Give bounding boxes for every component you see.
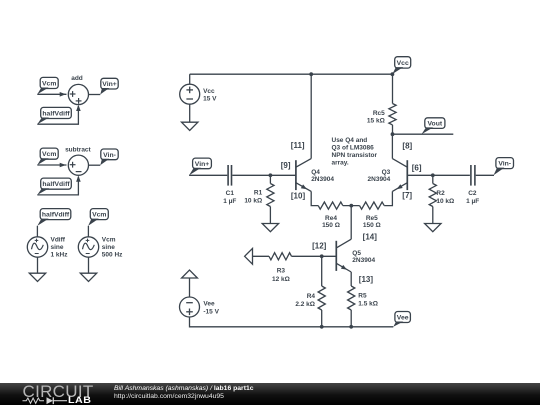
svg-text:[10]: [10] [291, 191, 306, 200]
svg-text:-15 V: -15 V [203, 308, 219, 315]
voltage source Vcc 15 V [180, 84, 217, 104]
svg-text:R1: R1 [254, 190, 263, 197]
svg-text:subtract: subtract [65, 147, 91, 154]
credit line 2 [114, 393, 224, 400]
svg-text:Vin+: Vin+ [102, 81, 116, 88]
svg-text:C1: C1 [226, 190, 235, 197]
svg-text:2N3904: 2N3904 [352, 257, 375, 264]
wire Re4 to junction [343, 205, 360, 207]
capacitor C2 1 uF [466, 165, 479, 205]
node flag halfVdiff (Vdiff source) [37, 209, 70, 226]
wire R3 to Q5 base [292, 255, 337, 257]
node flag halfVdiff (add input) [37, 107, 71, 124]
svg-text:halfVdiff: halfVdiff [42, 181, 70, 188]
node label 12 [312, 242, 327, 251]
wire halfVdiff to subtractor [37, 177, 78, 195]
svg-text:Vout: Vout [428, 121, 443, 128]
svg-text:Vcm: Vcm [92, 212, 106, 219]
wire flag to Vcm source [87, 226, 89, 237]
junction Rc5 / Vout / Q3 collector [391, 132, 395, 136]
ground below Vcm source [80, 273, 96, 281]
svg-text:10 kΩ: 10 kΩ [436, 198, 454, 205]
ground left of R3 [245, 248, 253, 264]
svg-text:R4: R4 [307, 293, 316, 300]
node label 8 [402, 141, 412, 150]
node flag Vout [422, 118, 445, 134]
svg-text:Re5: Re5 [366, 215, 378, 222]
arrowhead into subtractor [60, 163, 66, 168]
node label 9 [281, 161, 291, 170]
arrowhead up into subtractor [76, 176, 81, 182]
node flag halfVdiff (subtract input) [37, 178, 71, 195]
svg-text:Use Q4 and: Use Q4 and [332, 137, 368, 144]
svg-text:15 V: 15 V [203, 95, 217, 102]
svg-text:Vcc: Vcc [203, 88, 215, 95]
svg-text:[11]: [11] [291, 141, 305, 150]
wire ground to R3 [253, 255, 270, 257]
svg-text:Vee: Vee [397, 314, 409, 321]
wire Q4 collector to rail [310, 74, 312, 158]
node label 13 [359, 275, 374, 284]
svg-text:1 µF: 1 µF [466, 198, 479, 205]
wire Vcm to adder [37, 93, 66, 95]
arrowhead up into adder [76, 105, 81, 111]
node label 10 [291, 191, 306, 200]
ground above Vee source [182, 270, 198, 278]
wire Vcm source to ground [88, 257, 90, 273]
resistor R1 10 kOhm [244, 175, 274, 223]
svg-text:1.5 kΩ: 1.5 kΩ [358, 301, 378, 308]
source Vcm sine 500 Hz [78, 236, 123, 258]
wire Q5 emitter to R5 [350, 272, 352, 286]
svg-text:sine: sine [102, 244, 115, 251]
transistor Q4 2N3904 [296, 159, 334, 192]
node flag Vin- (input) [494, 158, 514, 176]
node label 14 [363, 233, 378, 242]
wire Vcm to subtractor [37, 164, 66, 166]
svg-text:Vdiff: Vdiff [51, 236, 66, 243]
resistor Re4 150 Ohm [318, 202, 343, 229]
voltage source Vee -15 V [180, 297, 220, 317]
wire subtractor to Vin- [89, 164, 101, 166]
note text [332, 137, 378, 167]
wire halfVdiff to adder [37, 106, 78, 124]
junction base / R2 [431, 173, 435, 177]
svg-text:[9]: [9] [281, 161, 291, 170]
resistor Rc5 15 kOhm [367, 74, 396, 134]
footer bar [0, 383, 540, 405]
node label 7 [402, 191, 412, 200]
svg-text:2N3904: 2N3904 [311, 176, 334, 183]
svg-text:2.2 kΩ: 2.2 kΩ [295, 301, 315, 308]
wire Vdiff source to ground [37, 257, 39, 273]
svg-text:halfVdiff: halfVdiff [42, 110, 70, 117]
svg-text:Vcc: Vcc [397, 60, 409, 67]
wire node 14 to Q5 collector [350, 206, 352, 240]
svg-text:Rc5: Rc5 [373, 110, 385, 117]
svg-text:R3: R3 [277, 267, 286, 274]
wire Vout [393, 133, 454, 135]
svg-text:[13]: [13] [359, 275, 374, 284]
wire Vcc source to ground [189, 104, 191, 122]
svg-text:500 Hz: 500 Hz [102, 252, 123, 259]
wire Vee source to rail [190, 317, 394, 327]
svg-text:Vin-: Vin- [498, 161, 511, 168]
svg-text:10 kΩ: 10 kΩ [244, 197, 262, 204]
wire flag to Vdiff source [36, 226, 38, 237]
resistor R2 10 kOhm [429, 175, 454, 223]
CircuitLab logo text CIRCUIT [23, 382, 94, 402]
wire Re5 to Q3 emitter [384, 191, 392, 205]
resistor R5 1.5 kOhm [348, 286, 378, 327]
svg-text:150 Ω: 150 Ω [363, 222, 381, 229]
wire C2 to Vin- [476, 174, 494, 176]
junction Vcc rail / flag [391, 72, 395, 76]
node flag Vin+ (add output) [100, 78, 118, 94]
svg-text:R2: R2 [436, 190, 445, 197]
svg-text:[6]: [6] [412, 163, 422, 172]
junction rail / R4 [320, 325, 324, 329]
capacitor C1 1 uF [223, 165, 236, 205]
svg-text:[7]: [7] [402, 191, 412, 200]
svg-text:Vcm: Vcm [42, 80, 56, 87]
summing block subtract [65, 147, 91, 176]
svg-text:[14]: [14] [363, 233, 378, 242]
credit line 1 [114, 385, 254, 392]
resistor Re5 150 Ohm [360, 202, 385, 229]
node flag Vin- (subtract output) [100, 149, 118, 165]
node flag Vin+ (input) [189, 158, 211, 175]
junction base / R1 [269, 173, 273, 177]
wire Q3 collector [391, 134, 393, 158]
wire Vcc source to rail [189, 74, 191, 84]
svg-text:Q3 of LM3086: Q3 of LM3086 [332, 145, 375, 152]
ground below Vdiff [29, 273, 45, 281]
junction R3 / R4 / base [320, 254, 324, 258]
svg-text:Vin+: Vin+ [195, 161, 209, 168]
svg-text:Vin-: Vin- [103, 152, 116, 159]
transistor Q3 2N3904 [368, 159, 408, 192]
svg-text:Vee: Vee [203, 301, 215, 308]
wire Vin+ to C1 [189, 174, 227, 176]
ground below Vcc source [182, 122, 198, 130]
node flag Vcc [392, 57, 410, 74]
svg-text:halfVdiff: halfVdiff [42, 212, 70, 219]
svg-text:Q4: Q4 [311, 169, 320, 176]
CircuitLab logo doodle (resistor + diode) [22, 395, 70, 407]
junction emitters node 14 [349, 204, 353, 208]
svg-text:Re4: Re4 [325, 215, 337, 222]
svg-text:NPN transistor: NPN transistor [332, 152, 378, 159]
svg-text:array.: array. [332, 160, 349, 167]
wire Q3 base to C2 [407, 174, 470, 176]
arrowhead into adder [60, 92, 66, 97]
CircuitLab logo text LAB [68, 395, 92, 406]
svg-text:Q3: Q3 [382, 169, 391, 176]
svg-text:1 kHz: 1 kHz [51, 252, 69, 259]
svg-text:15 kΩ: 15 kΩ [367, 117, 385, 124]
node label 6 [412, 163, 422, 172]
node flag Vcm (add input) [37, 77, 58, 94]
svg-text:12 kΩ: 12 kΩ [272, 276, 290, 283]
svg-text:Q5: Q5 [352, 250, 361, 257]
svg-text:Vcm: Vcm [102, 236, 116, 243]
node label 11 [291, 141, 305, 150]
svg-text:[12]: [12] [312, 242, 327, 251]
svg-text:2N3904: 2N3904 [368, 176, 391, 183]
Vcc rail wire [190, 73, 393, 75]
summing block add [68, 75, 88, 105]
source Vdiff sine 1 kHz [27, 236, 68, 258]
node flag Vcm (Vcm source) [88, 209, 108, 226]
resistor R3 12 kOhm [269, 253, 292, 284]
node flag Vee [393, 312, 410, 327]
svg-text:1 µF: 1 µF [223, 198, 236, 205]
wire Q4 emitter to Re4 [311, 191, 318, 205]
transistor Q5 2N3904 [336, 239, 375, 272]
resistor R4 2.2 kOhm [295, 256, 325, 327]
wire ground to Vee source [189, 278, 191, 297]
svg-text:add: add [71, 75, 83, 82]
junction Vcc rail / Q4 collector [309, 72, 313, 76]
wire adder to Vin+ [89, 94, 101, 96]
ground below R1 [262, 224, 278, 232]
svg-text:R5: R5 [358, 293, 367, 300]
wire C1 to Q4 base [232, 174, 296, 176]
junction rail / R5 [349, 325, 353, 329]
svg-text:C2: C2 [468, 190, 477, 197]
svg-text:[8]: [8] [402, 141, 412, 150]
node flag Vcm (subtract input) [37, 148, 58, 165]
svg-text:150 Ω: 150 Ω [322, 222, 340, 229]
svg-text:Vcm: Vcm [42, 151, 56, 158]
svg-text:sine: sine [51, 244, 64, 251]
ground below R2 [425, 224, 441, 232]
